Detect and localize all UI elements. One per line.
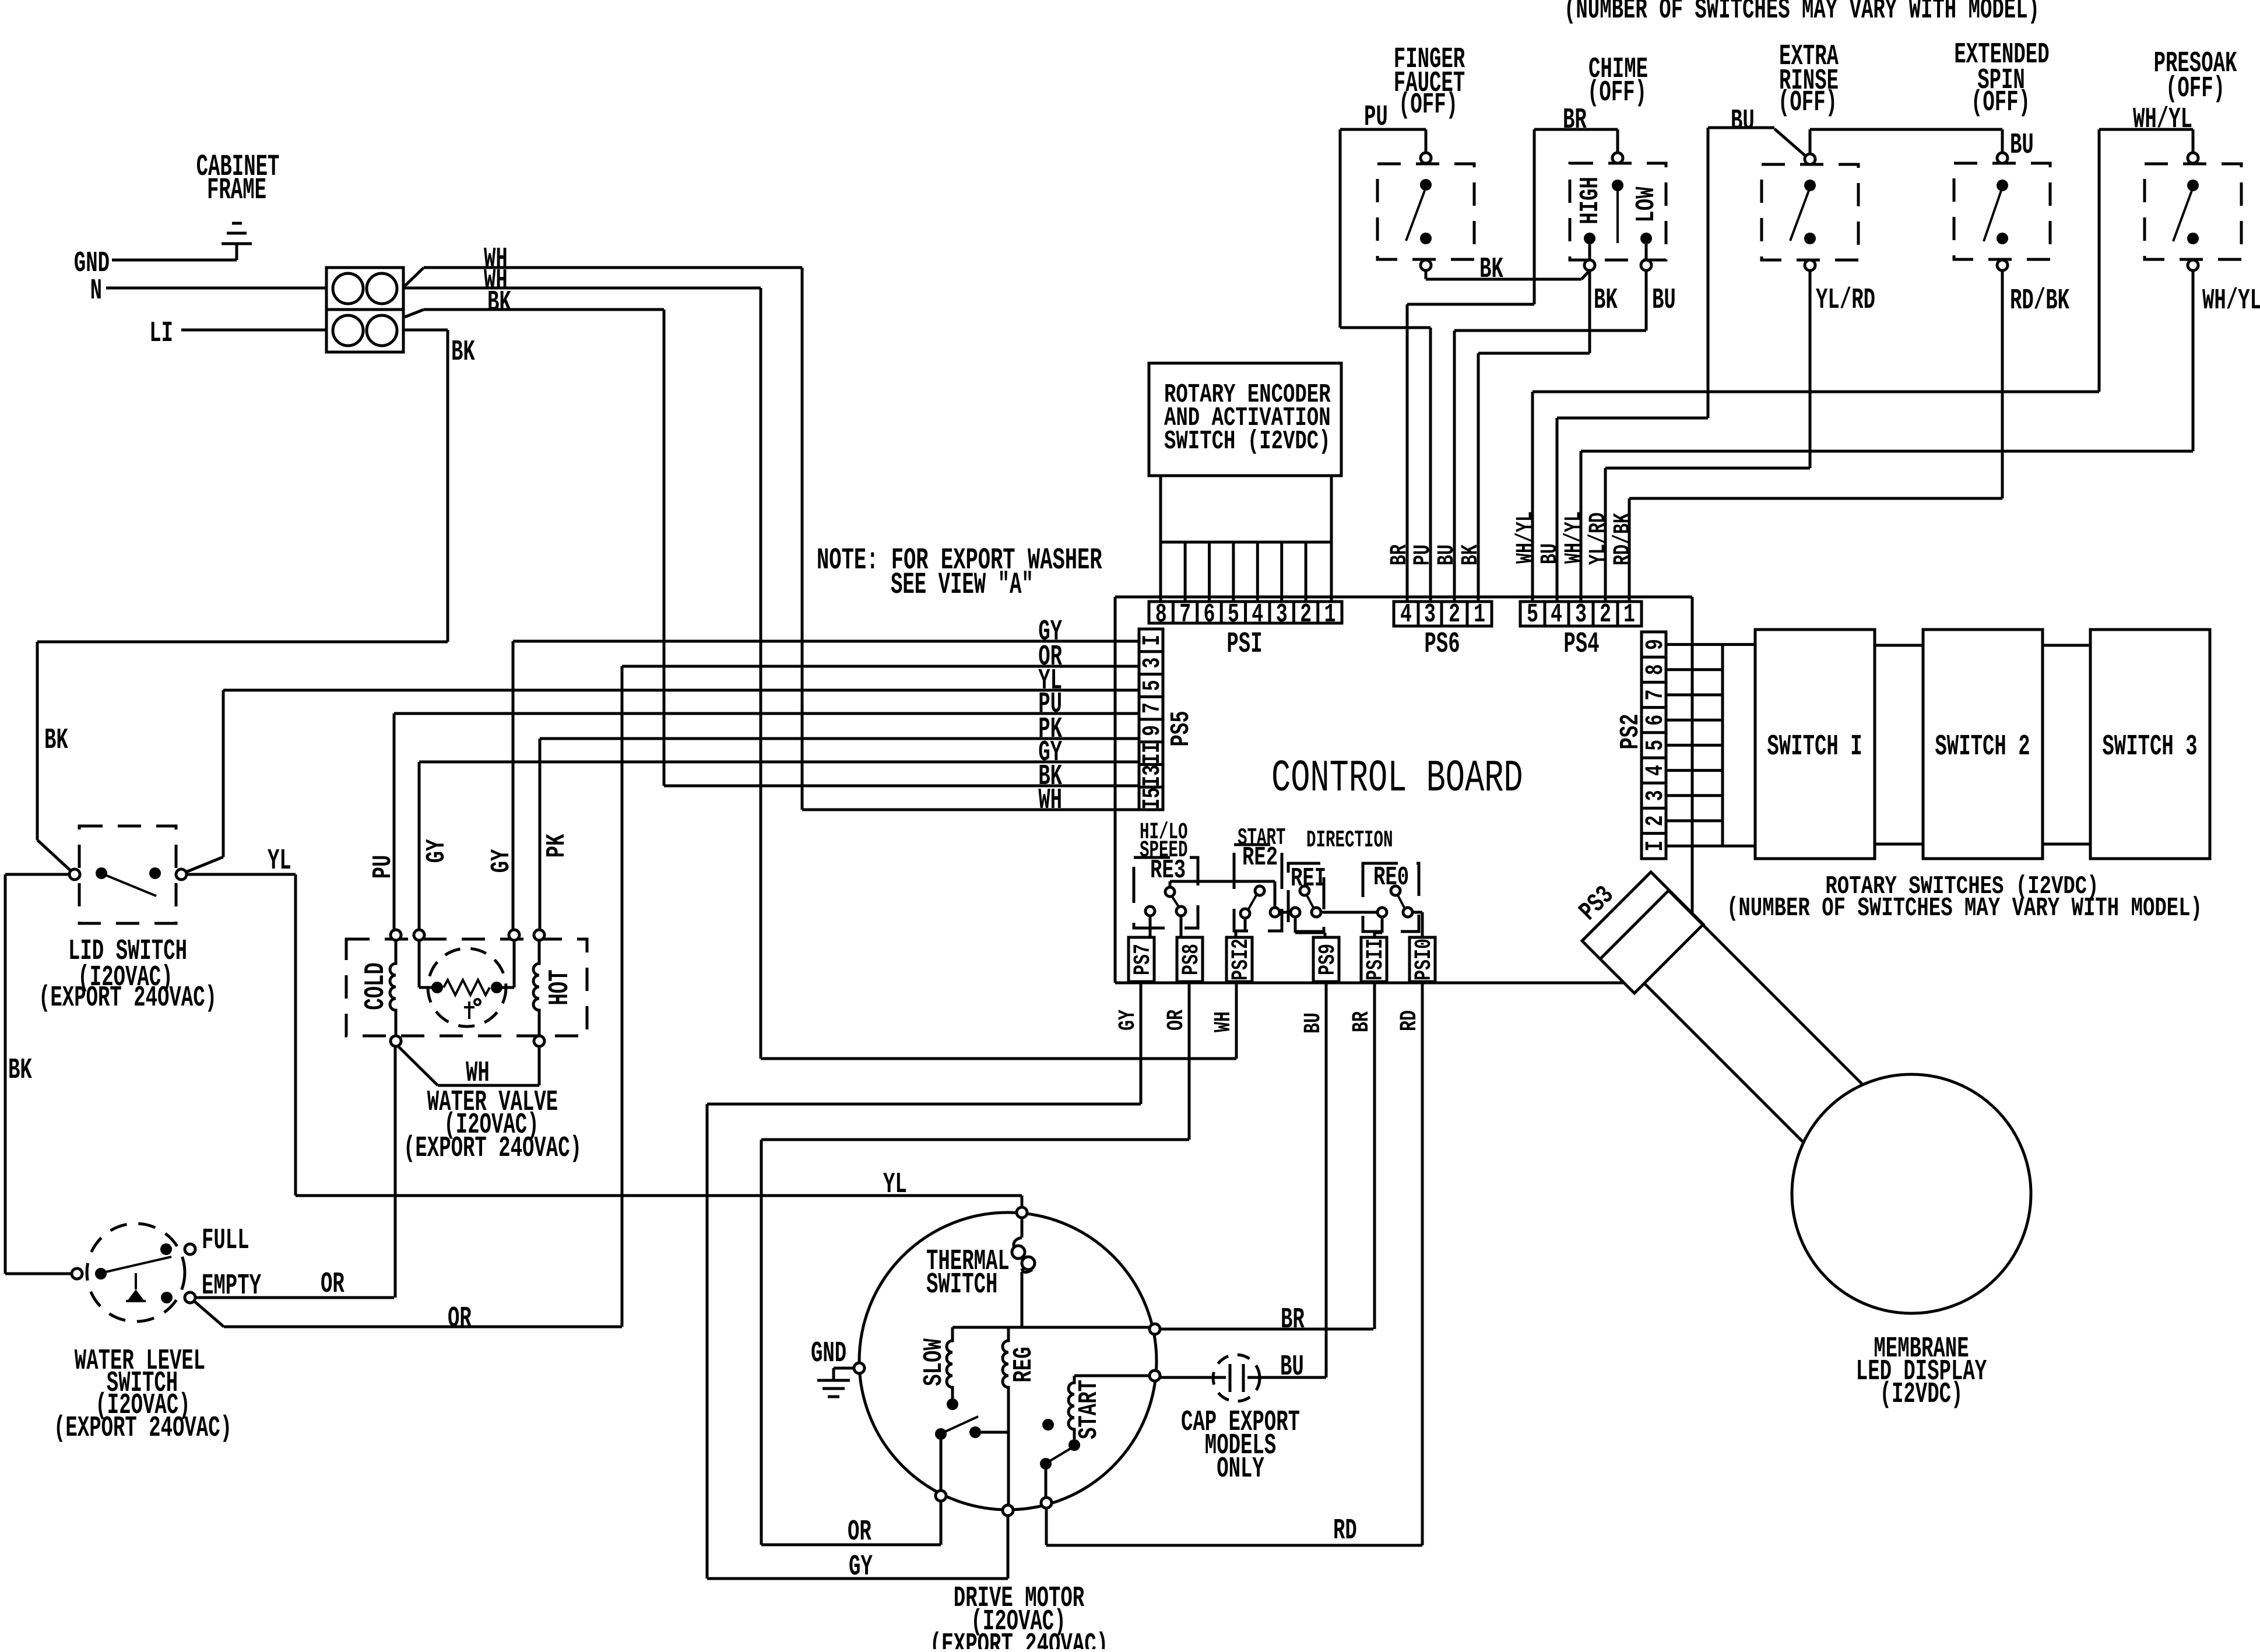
svg-text:9: 9 — [1642, 639, 1669, 650]
svg-text:(OFF): (OFF) — [2166, 72, 2225, 106]
svg-text:PS2: PS2 — [1615, 713, 1646, 749]
svg-text:(I2VDC): (I2VDC) — [1880, 1378, 1963, 1411]
svg-text:5: 5 — [1228, 599, 1239, 630]
svg-text:3: 3 — [1642, 790, 1669, 801]
svg-text:RD: RD — [1396, 1010, 1422, 1031]
svg-text:I: I — [1642, 841, 1669, 852]
svg-text:5: 5 — [1138, 680, 1166, 691]
svg-text:4: 4 — [1551, 599, 1562, 630]
svg-text:7: 7 — [1138, 702, 1166, 713]
svg-text:OR: OR — [848, 1516, 871, 1549]
svg-text:1: 1 — [1623, 599, 1635, 630]
svg-text:WH: WH — [1210, 1011, 1236, 1032]
svg-text:BK: BK — [1479, 253, 1503, 286]
svg-text:OR: OR — [448, 1302, 472, 1335]
svg-text:BK: BK — [487, 286, 511, 319]
svg-text:BU: BU — [1433, 544, 1460, 565]
svg-text:SEE VIEW "A": SEE VIEW "A" — [891, 568, 1034, 602]
svg-text:HIGH: HIGH — [1575, 177, 1605, 224]
svg-text:ONLY: ONLY — [1217, 1453, 1264, 1486]
svg-text:4: 4 — [1252, 599, 1263, 630]
svg-text:PSI: PSI — [1226, 628, 1262, 661]
svg-text:GY: GY — [421, 839, 452, 863]
svg-text:PSI0: PSI0 — [1411, 939, 1437, 980]
svg-text:3: 3 — [1424, 599, 1436, 630]
svg-text:REG: REG — [1008, 1347, 1039, 1382]
svg-text:(OFF): (OFF) — [1971, 86, 2030, 119]
svg-text:HOT: HOT — [544, 969, 576, 1005]
svg-text:3: 3 — [1276, 599, 1288, 630]
svg-text:BR: BR — [1281, 1303, 1305, 1337]
svg-text:1: 1 — [1474, 599, 1485, 630]
svg-text:GY: GY — [849, 1551, 873, 1584]
svg-text:BU: BU — [2010, 129, 2034, 162]
svg-text:PS6: PS6 — [1424, 628, 1460, 661]
svg-text:RE2: RE2 — [1242, 842, 1278, 873]
svg-text:(NUMBER OF SWITCHES MAY VARY W: (NUMBER OF SWITCHES MAY VARY WITH MODEL) — [1727, 893, 2202, 923]
svg-text:BU: BU — [1731, 105, 1755, 138]
svg-text:SWITCH 3: SWITCH 3 — [2102, 730, 2197, 764]
svg-text:PU: PU — [1410, 544, 1436, 565]
svg-text:START: START — [1074, 1380, 1104, 1439]
svg-text:2: 2 — [1300, 599, 1312, 630]
svg-text:YL: YL — [268, 845, 291, 878]
svg-text:5: 5 — [1527, 599, 1538, 630]
svg-text:BU: BU — [1300, 1013, 1326, 1034]
svg-text:LI: LI — [149, 317, 173, 350]
svg-text:BR: BR — [1563, 104, 1587, 137]
svg-text:BR: BR — [1386, 544, 1412, 565]
svg-text:7: 7 — [1179, 599, 1191, 630]
svg-text:BU: BU — [1652, 284, 1676, 317]
svg-text:WH/YL: WH/YL — [2202, 284, 2260, 318]
svg-text:RD: RD — [1333, 1514, 1357, 1548]
svg-text:8: 8 — [1642, 664, 1669, 675]
svg-text:BK: BK — [1594, 284, 1618, 317]
svg-text:6: 6 — [1204, 599, 1215, 630]
svg-text:LOW: LOW — [1631, 187, 1661, 223]
svg-text:BK: BK — [44, 724, 68, 757]
svg-text:GY: GY — [486, 849, 516, 873]
svg-text:SLOW: SLOW — [919, 1338, 949, 1386]
svg-text:2: 2 — [1642, 816, 1669, 827]
svg-text:5: 5 — [1642, 740, 1669, 751]
svg-text:PSII: PSII — [1362, 939, 1389, 980]
svg-text:OR: OR — [1163, 1010, 1189, 1031]
svg-text:BK: BK — [1457, 544, 1484, 565]
svg-text:PS9: PS9 — [1314, 944, 1341, 975]
svg-text:SWITCH 2: SWITCH 2 — [1935, 730, 2030, 764]
svg-text:BK: BK — [451, 336, 475, 369]
svg-text:YL: YL — [883, 1168, 907, 1201]
svg-text:PS4: PS4 — [1563, 628, 1599, 661]
svg-text:N: N — [90, 275, 102, 308]
svg-text:FULL: FULL — [202, 1224, 249, 1257]
svg-text:2: 2 — [1449, 599, 1460, 630]
svg-text:WH/YL: WH/YL — [1512, 511, 1538, 564]
svg-text:GY: GY — [1115, 1010, 1141, 1031]
svg-text:(EXPORT 24OVAC): (EXPORT 24OVAC) — [930, 1629, 1108, 1649]
svg-text:4: 4 — [1642, 765, 1669, 776]
svg-text:WH: WH — [466, 1057, 490, 1090]
svg-text:2: 2 — [1600, 599, 1611, 630]
svg-text:WH/YL: WH/YL — [1560, 511, 1587, 564]
svg-text:SWITCH (I2VDC): SWITCH (I2VDC) — [1164, 426, 1331, 456]
svg-text:3: 3 — [1575, 599, 1587, 630]
svg-text:PK: PK — [542, 834, 572, 857]
svg-text:PU: PU — [368, 855, 398, 879]
svg-text:4: 4 — [1400, 599, 1412, 630]
svg-text:YL/RD: YL/RD — [1585, 512, 1611, 565]
svg-text:BK: BK — [8, 1054, 32, 1087]
svg-text:(NUMBER OF SWITCHES MAY VARY W: (NUMBER OF SWITCHES MAY VARY WITH MODEL) — [1564, 0, 2040, 27]
svg-text:BR: BR — [1348, 1011, 1375, 1032]
svg-text:I3: I3 — [1138, 765, 1166, 787]
svg-text:I5: I5 — [1138, 788, 1166, 810]
svg-text:SWITCH: SWITCH — [926, 1268, 997, 1302]
svg-text:8: 8 — [1155, 599, 1167, 630]
svg-text:PS7: PS7 — [1130, 944, 1156, 975]
svg-text:FRAME: FRAME — [207, 174, 266, 208]
svg-text:GND: GND — [811, 1337, 846, 1370]
svg-text:II: II — [1138, 742, 1166, 764]
svg-text:SWITCH I: SWITCH I — [1767, 730, 1862, 764]
svg-text:(EXPORT 24OVAC): (EXPORT 24OVAC) — [38, 982, 217, 1015]
svg-text:(OFF): (OFF) — [1398, 89, 1458, 122]
svg-text:(OFF): (OFF) — [1778, 86, 1837, 119]
svg-text:BU: BU — [1537, 543, 1563, 564]
svg-text:7: 7 — [1642, 690, 1669, 701]
svg-text:PS8: PS8 — [1178, 944, 1204, 975]
svg-text:WH/YL: WH/YL — [2133, 103, 2192, 136]
svg-text:(OFF): (OFF) — [1587, 76, 1647, 110]
svg-text:COLD: COLD — [360, 962, 392, 1010]
svg-text:PS5: PS5 — [1166, 711, 1196, 746]
svg-text:1: 1 — [1324, 599, 1336, 630]
svg-text:(EXPORT 24OVAC): (EXPORT 24OVAC) — [54, 1412, 232, 1445]
svg-text:I: I — [1138, 635, 1166, 646]
svg-text:DIRECTION: DIRECTION — [1306, 827, 1393, 854]
svg-text:RD/BK: RD/BK — [2010, 284, 2069, 318]
svg-text:6: 6 — [1642, 715, 1669, 726]
svg-text:9: 9 — [1138, 725, 1166, 736]
svg-text:3: 3 — [1138, 658, 1166, 669]
svg-text:(EXPORT 24OVAC): (EXPORT 24OVAC) — [403, 1132, 582, 1165]
svg-text:YL/RD: YL/RD — [1816, 284, 1875, 317]
svg-text:CONTROL BOARD: CONTROL BOARD — [1271, 754, 1523, 804]
svg-text:WH: WH — [1038, 784, 1062, 817]
svg-text:PU: PU — [1364, 101, 1388, 134]
svg-text:PSI2: PSI2 — [1228, 939, 1254, 980]
svg-text:OR: OR — [321, 1268, 345, 1301]
svg-text:BU: BU — [1280, 1351, 1304, 1384]
svg-text:RD/BK: RD/BK — [1609, 513, 1636, 565]
